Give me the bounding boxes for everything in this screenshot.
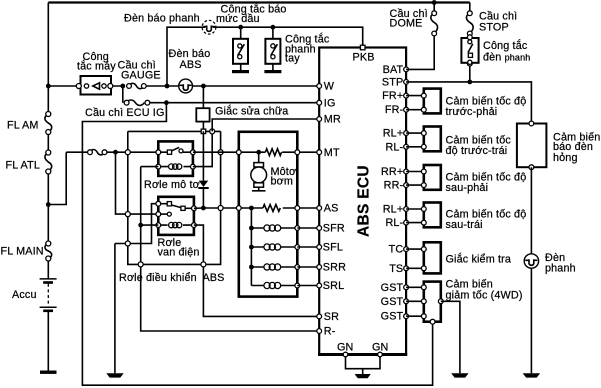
wire: GAUGE row (to W pin)	[48, 85, 318, 87]
wire: TC row	[406, 248, 424, 250]
wire: GST rows	[406, 287, 424, 316]
svg-text:GST: GST	[381, 282, 404, 294]
pin SR	[317, 314, 322, 319]
fuse FL AM	[45, 112, 52, 135]
wire: RL- rear row	[406, 222, 424, 224]
svg-text:PKB: PKB	[353, 52, 375, 64]
svg-text:mức dầu: mức dầu	[216, 13, 260, 25]
svg-text:RR+: RR+	[381, 166, 403, 178]
wire: lamp failure sensor to brake lamp	[530, 167, 532, 373]
pin IG	[317, 100, 322, 105]
svg-text:FL AM: FL AM	[7, 120, 39, 132]
pin SFR	[317, 226, 322, 231]
node: junction STP row / stop switch	[467, 80, 472, 85]
fuse FL ATL	[45, 150, 52, 174]
relay: Role mo to (motor relay) box	[156, 141, 195, 176]
terminal: square on ladder row under service connector	[201, 129, 206, 134]
terminal: circle ladder right vertical at AS row	[218, 206, 223, 211]
node: junction AS row / diode line	[201, 206, 206, 211]
svg-text:Giắc kiểm tra: Giắc kiểm tra	[446, 253, 512, 266]
pin BAT	[404, 67, 409, 72]
node: junction bus AS row	[249, 206, 254, 211]
node: junction IG row / left loop drop	[164, 100, 169, 105]
ECU: ABS ECU box	[319, 48, 406, 355]
wire: SFL row to pin	[297, 246, 318, 248]
terminal: PKB square on ECU top	[360, 45, 365, 50]
pin GN1	[343, 352, 348, 357]
diode body	[198, 181, 208, 208]
svg-text:GN: GN	[372, 342, 389, 354]
svg-text:Đèn báo phanh: Đèn báo phanh	[124, 12, 200, 24]
pin SRL	[317, 283, 322, 288]
svg-text:bơm: bơm	[271, 175, 294, 187]
svg-text:FL ATL: FL ATL	[6, 159, 41, 171]
ground: parking switch ground	[264, 70, 281, 73]
pin MT	[317, 150, 322, 155]
terminal: circle ladder crossing fuse row	[125, 150, 130, 155]
ground: 4WD sensor ground	[451, 373, 468, 377]
wire: STOP branch from top bus	[469, 3, 471, 82]
wire: AS row from valve switch to AS pin	[194, 207, 318, 209]
solenoid coil SFR	[251, 225, 299, 231]
node: junction GAUGE fuse / ECU-IG drop	[120, 84, 125, 89]
switch: Cong tac bao muc dau (oil level)	[233, 27, 248, 70]
wire: IG junction drop to long ground loop (left, bottom bus, to 4WD sensor)	[82, 103, 432, 386]
motor: Moto bom (pump motor)	[251, 150, 267, 191]
wire: MR elbow to MR pin	[212, 119, 318, 131]
terminal: circle ladder crossing row2	[125, 212, 130, 217]
pin TS	[404, 266, 409, 271]
terminal: actuator right edge AS	[295, 206, 300, 211]
svg-text:RR-: RR-	[384, 180, 404, 192]
terminal: circle on ladder row at MR elbow	[210, 129, 215, 134]
fuse ECU IG	[124, 100, 150, 105]
node: junction bus / GAUGE row	[46, 84, 51, 89]
fuse: relay feed fusible link	[88, 150, 107, 155]
svg-text:FR+: FR+	[382, 90, 403, 102]
svg-text:AS: AS	[324, 203, 339, 215]
wire: ladder row y131	[128, 130, 221, 132]
node: junction lamp row / oil switch	[238, 25, 243, 30]
diode: motor relay diode line	[202, 131, 204, 180]
resistor: MT check resistor	[265, 149, 281, 156]
svg-text:MR: MR	[324, 114, 341, 126]
switch: Cong tac may (ignition)	[76, 76, 113, 95]
pin RR+	[404, 169, 409, 174]
node: junction lamp row / parking switch	[271, 25, 276, 30]
svg-text:RL+: RL+	[383, 204, 404, 216]
pin SRR	[317, 265, 322, 270]
svg-text:DOME: DOME	[390, 18, 423, 30]
svg-text:SRL: SRL	[323, 280, 344, 292]
fuse FL MAIN	[45, 241, 52, 261]
svg-text:SFL: SFL	[323, 242, 343, 254]
fuse: Cau chi DOME	[431, 11, 438, 36]
svg-text:độ trước-trái: độ trước-trái	[446, 145, 508, 157]
svg-text:van điện: van điện	[158, 246, 200, 258]
svg-text:MT: MT	[324, 147, 340, 159]
lamp: Den bao ABS	[179, 79, 193, 93]
svg-text:hỏng: hỏng	[553, 152, 578, 164]
fuse: Cau chi STOP	[466, 11, 473, 36]
svg-text:GST: GST	[381, 311, 404, 323]
svg-text:RL-: RL-	[385, 217, 403, 229]
pin GST2	[404, 299, 409, 304]
svg-text:STP: STP	[382, 76, 403, 88]
pin AS	[317, 206, 322, 211]
wire: RL- front row	[406, 146, 424, 148]
solenoid coil SRL	[251, 282, 299, 288]
wire: FR- row	[406, 109, 424, 111]
wire: ladder left vertical and bottom row (x128.5 / y264.4 / x220.6 U)	[128, 131, 221, 264]
svg-text:sau-trái: sau-trái	[446, 219, 483, 231]
svg-text:ABS: ABS	[180, 59, 202, 71]
svg-text:Accu: Accu	[12, 289, 37, 301]
svg-text:giảm tốc (4WD): giảm tốc (4WD)	[446, 290, 523, 302]
node: junction valve coil row	[138, 223, 143, 228]
terminal: circle C on bottom ladder row	[201, 262, 206, 267]
wire: R- line (motor coil, valve coil junction, to R- pin)	[141, 167, 319, 331]
pin STP	[404, 80, 409, 85]
pin FR+	[404, 93, 409, 98]
ground: oil switch ground	[232, 70, 249, 73]
wire: ECU-IG row	[123, 86, 318, 103]
wire: TS row	[406, 267, 424, 269]
svg-text:W: W	[324, 81, 335, 93]
svg-text:Giắc sửa chữa: Giắc sửa chữa	[215, 104, 288, 117]
solenoid coil SRR	[251, 264, 299, 270]
pin GST1	[404, 285, 409, 290]
pin GN2	[378, 352, 383, 357]
switch: Cong tac phanh tay (parking brake)	[265, 27, 280, 70]
sensor: front-left speed sensor box	[421, 127, 440, 152]
wire: service connector to MR ladder row	[202, 122, 204, 132]
node: junction W row / service connector branch	[201, 84, 206, 89]
terminal: circle ladder right vertical at MT row	[218, 150, 223, 155]
svg-text:phanh: phanh	[545, 263, 576, 275]
svg-text:Cầu chì ECU IG: Cầu chì ECU IG	[85, 107, 165, 119]
pin FR-	[404, 107, 409, 112]
sensor: Cam bien bao den hong (lamp failure) box	[517, 121, 547, 170]
lamp: Den phanh (brake lamp)	[524, 254, 538, 268]
wire: bus elbow to relay feed row	[48, 152, 66, 204]
pin W	[317, 84, 322, 89]
wire: motor relay coil right up to MR ladder	[193, 134, 212, 167]
lamp: Den bao phanh (dashed warning)	[202, 20, 216, 34]
terminal: actuator left edge MT	[236, 150, 241, 155]
svg-text:STOP: STOP	[479, 22, 509, 34]
svg-text:Công tắc: Công tắc	[483, 39, 528, 52]
pin RL+ rear	[404, 207, 409, 212]
svg-text:FL MAIN: FL MAIN	[1, 246, 44, 258]
svg-text:SFR: SFR	[323, 223, 345, 235]
svg-text:BAT: BAT	[383, 64, 404, 76]
svg-text:RL+: RL+	[383, 128, 404, 140]
switch: Cong tac den phanh (stop light switch)	[461, 35, 478, 66]
node: junction bus / relay feed row	[46, 202, 51, 207]
wire: RL+ front row	[406, 132, 424, 134]
ground: brake lamp ground	[523, 373, 540, 377]
svg-text:R-: R-	[324, 326, 336, 338]
connector: Giac sua chua (service connector)	[196, 108, 209, 121]
wire: valve relay row2 feed from fuse junction	[116, 152, 159, 214]
pin RL+ front	[404, 131, 409, 136]
battery Accu	[40, 279, 57, 312]
svg-text:ABS ECU: ABS ECU	[356, 165, 373, 237]
svg-text:tay: tay	[285, 53, 300, 65]
svg-text:trước-phải: trước-phải	[446, 106, 498, 118]
solenoid coil SFL	[251, 244, 299, 250]
terminal: actuator right edge MT	[295, 150, 300, 155]
wire: MT row motor relay to MT pin	[193, 151, 318, 153]
wire: relay feed row (fusible link row)	[66, 151, 158, 153]
svg-text:TC: TC	[389, 244, 404, 256]
pin RR-	[404, 183, 409, 188]
wire: valve coil right to SR line	[194, 225, 318, 316]
svg-text:GST: GST	[381, 296, 404, 308]
wire: solenoid bus	[250, 208, 252, 286]
fuse GAUGE	[127, 83, 147, 88]
svg-text:IG: IG	[324, 97, 336, 109]
wire: SRL row to pin	[297, 285, 318, 287]
pin RL- rear	[404, 220, 409, 225]
node: junction W row / warning lamp branch	[165, 84, 170, 89]
pin TC	[404, 247, 409, 252]
wire: SRR row to pin	[297, 266, 318, 268]
pin GST3	[404, 314, 409, 319]
wire: valve relay row1 feed + ground branch	[115, 204, 158, 374]
wire: motor relay coil left to R- line	[141, 166, 159, 168]
svg-text:GN: GN	[337, 342, 354, 354]
svg-text:RL-: RL-	[385, 141, 403, 153]
wire: warning lamp top row	[167, 27, 363, 86]
wire: left battery bus vertical	[47, 3, 49, 371]
svg-text:đèn phanh: đèn phanh	[483, 52, 530, 64]
svg-text:tắc máy: tắc máy	[77, 59, 116, 72]
terminal: actuator left edge AS	[236, 206, 241, 211]
pin R-	[317, 329, 322, 334]
wire: top supply bus	[48, 1, 470, 3]
node: junction bus SFR row	[249, 226, 254, 231]
wire: FR+ row	[406, 95, 424, 97]
actuator: ABS actuator box (thick)	[239, 132, 297, 297]
wire: STP row to lamp failure sensor	[406, 82, 531, 124]
wire: 4WD sensor right ground branch	[441, 301, 460, 373]
node: junction bus SRR row	[249, 265, 254, 270]
node: junction bus SFL row	[249, 245, 254, 250]
svg-text:SR: SR	[324, 311, 339, 323]
wire: RR- row	[406, 184, 424, 186]
svg-text:FR-: FR-	[385, 104, 404, 116]
terminal: circle A ladder crossing row3	[125, 241, 130, 246]
node: junction top bus / DOME	[432, 0, 437, 5]
ground: battery ground	[40, 371, 57, 374]
wire: GN ground network	[346, 355, 381, 379]
ground: relay circuit ground	[106, 373, 123, 377]
wire: valve coil junction to box	[141, 224, 159, 226]
sensor: rear-right speed sensor box	[421, 165, 440, 190]
terminal: circle B on bottom ladder row	[138, 262, 143, 267]
pin RL- front	[404, 144, 409, 149]
wire: service connector drop from W row	[202, 86, 204, 108]
wire: RR+ row	[406, 171, 424, 173]
svg-text:Rơle điều khiển ABS: Rơle điều khiển ABS	[119, 272, 225, 284]
svg-text:Rơle mô tơ: Rơle mô tơ	[144, 179, 200, 191]
pin SFL	[317, 245, 322, 250]
svg-text:sau-phải: sau-phải	[446, 182, 489, 194]
svg-text:SRR: SRR	[323, 262, 346, 274]
sensor: rear-left speed sensor box	[421, 203, 440, 228]
relay: Role van dien (solenoid relay) box	[156, 197, 196, 235]
wire: RL+ rear row	[406, 208, 424, 210]
node: junction feed row / ground branch	[113, 150, 118, 155]
wire: SFR row to pin	[297, 227, 318, 229]
resistor: AS check resistor	[263, 205, 280, 212]
connector: Giac kiem tra (check connector) box	[421, 242, 440, 273]
svg-text:GAUGE: GAUGE	[121, 70, 161, 82]
sensor: front-right speed sensor box	[421, 89, 440, 114]
svg-text:TS: TS	[389, 263, 403, 275]
pin MR	[317, 117, 322, 122]
sensor: Cam bien giam toc 4WD box	[421, 282, 443, 325]
wire: BAT to DOME fuse	[406, 3, 434, 70]
